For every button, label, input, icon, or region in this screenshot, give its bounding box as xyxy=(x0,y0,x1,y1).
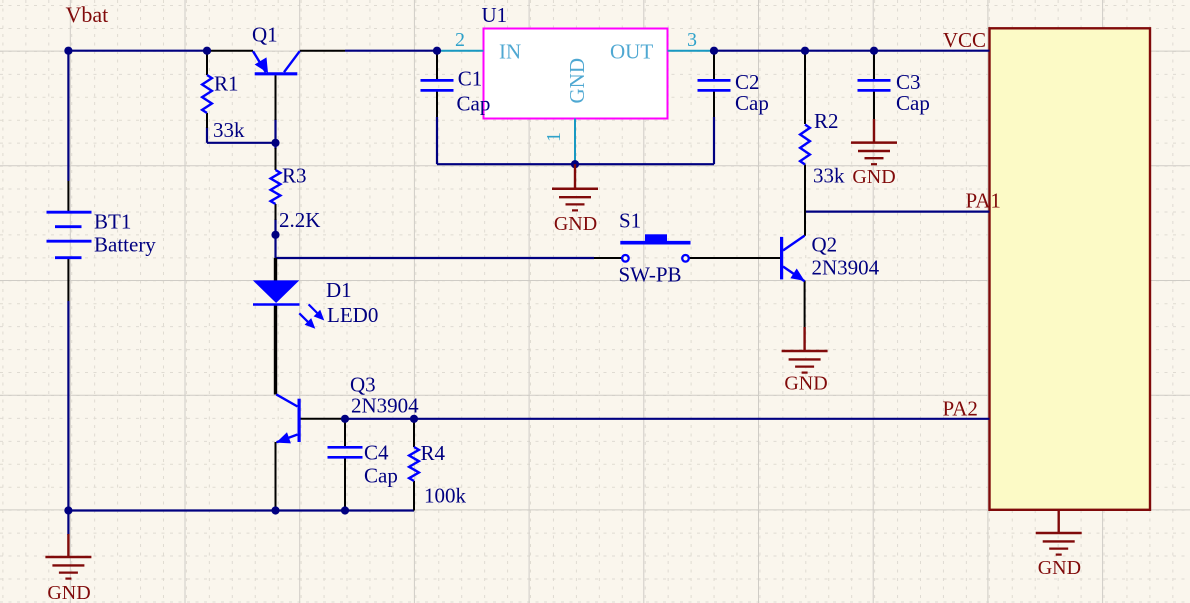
svg-text:2.2K: 2.2K xyxy=(279,208,320,232)
svg-text:Cap: Cap xyxy=(457,92,491,116)
svg-text:D1: D1 xyxy=(326,278,352,302)
svg-text:33k: 33k xyxy=(813,164,845,188)
svg-text:R3: R3 xyxy=(282,163,307,187)
svg-text:1: 1 xyxy=(543,132,565,142)
svg-text:OUT: OUT xyxy=(610,39,653,63)
svg-text:3: 3 xyxy=(687,29,697,51)
svg-text:C4: C4 xyxy=(364,441,389,465)
svg-text:GND: GND xyxy=(565,58,589,104)
svg-text:SW-PB: SW-PB xyxy=(619,263,682,287)
svg-text:PA1: PA1 xyxy=(966,189,1001,213)
svg-text:U1: U1 xyxy=(482,3,508,27)
svg-text:GND: GND xyxy=(1038,557,1081,579)
svg-text:Cap: Cap xyxy=(364,463,398,487)
svg-text:Q1: Q1 xyxy=(252,23,278,47)
svg-text:Battery: Battery xyxy=(94,233,156,257)
svg-text:BT1: BT1 xyxy=(94,209,131,233)
svg-text:2N3904: 2N3904 xyxy=(351,393,419,417)
svg-text:Cap: Cap xyxy=(896,91,930,115)
svg-text:IN: IN xyxy=(499,39,521,63)
svg-text:33k: 33k xyxy=(213,118,245,142)
svg-text:R2: R2 xyxy=(814,109,839,133)
svg-text:Q2: Q2 xyxy=(812,232,838,256)
svg-text:VCC: VCC xyxy=(943,28,986,52)
svg-text:2: 2 xyxy=(455,29,465,51)
svg-text:GND: GND xyxy=(47,582,90,603)
svg-text:LED0: LED0 xyxy=(327,303,378,327)
svg-text:Cap: Cap xyxy=(735,91,769,115)
svg-text:S1: S1 xyxy=(619,208,641,232)
svg-text:C1: C1 xyxy=(458,67,483,91)
svg-text:GND: GND xyxy=(784,373,827,395)
svg-text:2N3904: 2N3904 xyxy=(812,255,880,279)
svg-text:GND: GND xyxy=(852,166,895,188)
svg-text:R4: R4 xyxy=(421,441,446,465)
svg-text:GND: GND xyxy=(554,213,597,235)
svg-text:100k: 100k xyxy=(424,484,467,508)
svg-text:Vbat: Vbat xyxy=(66,2,109,27)
svg-text:PA2: PA2 xyxy=(943,397,978,421)
svg-text:R1: R1 xyxy=(214,72,239,96)
